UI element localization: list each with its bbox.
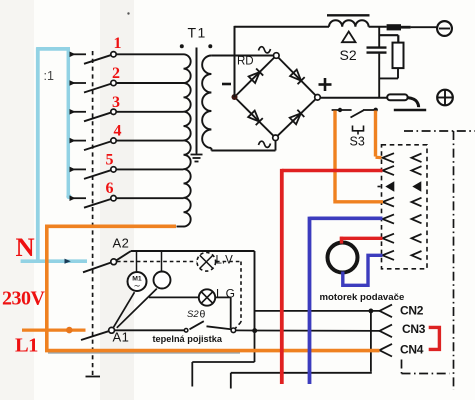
svg-text:3: 3 (112, 94, 120, 111)
svg-text:CN4: CN4 (400, 342, 424, 356)
svg-text:∼: ∼ (133, 281, 140, 291)
svg-text:1: 1 (114, 35, 122, 52)
svg-text::1: :1 (44, 69, 54, 83)
svg-text:θ: θ (200, 309, 206, 321)
svg-text:RD: RD (237, 56, 254, 68)
svg-text:T1: T1 (188, 25, 207, 41)
svg-text:CN2: CN2 (400, 304, 424, 318)
svg-text:6: 6 (106, 180, 114, 197)
svg-text:tepelná pojistka: tepelná pojistka (153, 334, 223, 344)
svg-text:L.V: L.V (216, 255, 234, 267)
svg-text:N: N (16, 232, 35, 262)
svg-text:5: 5 (106, 151, 114, 168)
svg-text:A2: A2 (113, 236, 130, 251)
svg-text:S3: S3 (350, 135, 365, 149)
svg-text:S2: S2 (187, 309, 199, 320)
svg-text:L1: L1 (15, 335, 38, 357)
svg-text:motorek podavače: motorek podavače (320, 292, 405, 303)
svg-text:CN3: CN3 (402, 322, 426, 336)
svg-text:230V: 230V (2, 288, 46, 310)
svg-text:S2: S2 (340, 47, 357, 63)
svg-text:A1: A1 (113, 330, 130, 345)
svg-text:L G: L G (216, 287, 235, 301)
svg-text:2: 2 (112, 65, 120, 82)
svg-text:4: 4 (114, 123, 122, 140)
